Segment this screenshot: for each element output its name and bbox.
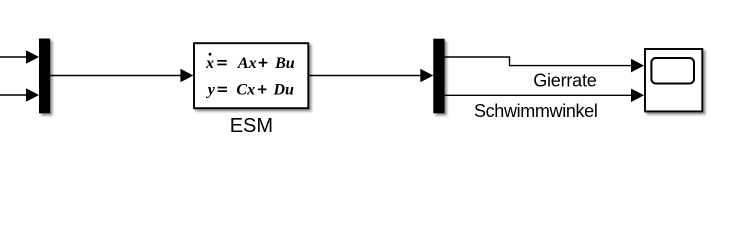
- wire: top-left input into mux: [0, 56, 27, 58]
- mux block (vertical bar): [39, 39, 50, 114]
- svg-text:ESM: ESM: [230, 115, 273, 137]
- equation line 1: xdot = Ax + Bu: [205, 55, 295, 72]
- svg-text:Cx: Cx: [236, 82, 255, 99]
- plus sign line 1: [259, 62, 268, 64]
- svg-text:x: x: [205, 55, 214, 72]
- svg-text:y: y: [206, 82, 216, 99]
- svg-text:Ax: Ax: [237, 55, 257, 72]
- scope screen: [651, 58, 694, 84]
- svg-text:Schwimmwinkel: Schwimmwinkel: [474, 101, 597, 121]
- scope block: [645, 49, 702, 111]
- svg-text:Du: Du: [273, 82, 295, 99]
- demux block (vertical bar): [433, 39, 444, 114]
- svg-text:Gierrate: Gierrate: [533, 71, 597, 91]
- arrowhead: into scope input 2: [631, 89, 644, 103]
- arrowhead: into scope input 1: [631, 59, 644, 73]
- wire: demux top output with jog down to scope input 1: [445, 57, 632, 66]
- wire: bottom-left input into mux: [0, 94, 27, 96]
- dot over x: [209, 53, 212, 56]
- equals sign line 2: [218, 87, 227, 89]
- arrowhead: into ESM: [180, 69, 193, 83]
- equation line 2: y = Cx + Du: [206, 82, 294, 99]
- equals sign line 1: [217, 60, 226, 62]
- arrowhead: into demux: [420, 69, 433, 83]
- arrowhead: bottom-left input: [26, 88, 39, 102]
- svg-text:Bu: Bu: [274, 55, 295, 72]
- wire: ESM output to demux: [309, 75, 421, 77]
- arrowhead: top-left input: [26, 50, 39, 64]
- plus sign line 2: [258, 89, 267, 91]
- state-space block ESM: [194, 43, 308, 108]
- wire: mux output to ESM block: [50, 75, 181, 77]
- wire: demux bottom output to scope input 2: [445, 94, 632, 96]
